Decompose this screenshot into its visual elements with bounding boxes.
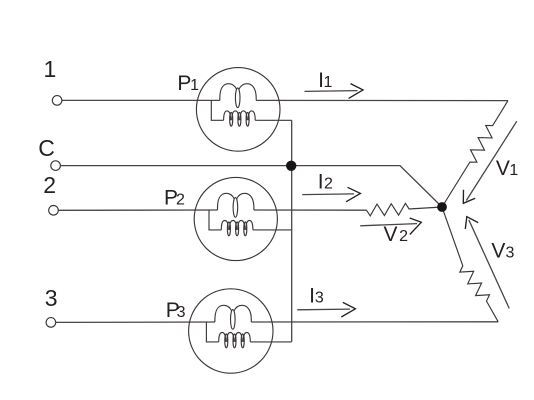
- wattmeter P1 circle: [196, 68, 280, 152]
- arrow I2 shaft: [302, 193, 354, 196]
- arrow V3 shaft: [469, 220, 509, 309]
- arrow V3 head: [465, 217, 478, 229]
- svg-text:V: V: [496, 157, 510, 180]
- svg-text:3: 3: [315, 289, 324, 306]
- wire phase 3 right: [251, 321, 498, 323]
- wattmeter P3 circle: [189, 289, 273, 373]
- wire C line: [60, 166, 442, 207]
- svg-text:2: 2: [176, 191, 185, 208]
- arrow I2 head: [346, 187, 360, 202]
- arrow V1 head: [463, 190, 475, 204]
- wattmeter P2 coils: [209, 193, 254, 236]
- terminal 2: [49, 206, 59, 216]
- svg-text:V: V: [491, 240, 505, 263]
- svg-text:3: 3: [177, 304, 186, 321]
- svg-text:3: 3: [506, 245, 515, 262]
- wire phase 1 right: [256, 99, 508, 101]
- arrow V1 shaft: [466, 121, 517, 200]
- svg-text:1: 1: [324, 74, 333, 91]
- wire phase 2 right: [254, 209, 367, 211]
- load branch V1 wire + resistor: [442, 101, 508, 207]
- common voltage bus: [291, 120, 293, 342]
- wattmeter P1 coils: [211, 84, 256, 127]
- wattmeter P3 coils: [206, 305, 251, 348]
- svg-text:I: I: [318, 170, 324, 193]
- svg-text:V: V: [384, 223, 398, 246]
- svg-text:1: 1: [509, 162, 518, 179]
- junction dot on C line: [286, 161, 296, 171]
- svg-text:1: 1: [190, 77, 199, 94]
- arrow V2 head: [410, 218, 422, 235]
- wire phase 2 left: [58, 209, 217, 211]
- svg-text:C: C: [38, 135, 55, 161]
- arrow I1 head: [349, 84, 363, 99]
- terminal 1: [52, 96, 62, 106]
- svg-text:3: 3: [45, 285, 58, 311]
- P1 voltage coil tap to bus: [256, 119, 291, 121]
- wire phase 3 left: [56, 321, 215, 323]
- star point node: [437, 202, 447, 212]
- load branch V2 resistor: [367, 203, 443, 216]
- arrow I3 shaft: [297, 308, 350, 311]
- wire phase 1 left: [62, 99, 220, 101]
- arrow I1 shaft: [305, 90, 358, 93]
- svg-text:2: 2: [324, 175, 333, 192]
- load branch V3 wire + resistor: [442, 207, 498, 322]
- svg-text:2: 2: [43, 172, 56, 198]
- P2 voltage coil tap to bus: [254, 229, 292, 231]
- P3 voltage coil tap to bus: [252, 341, 292, 343]
- svg-text:2: 2: [399, 228, 408, 245]
- arrow V2 shaft: [360, 224, 417, 226]
- arrow I3 head: [341, 302, 355, 317]
- terminal 3: [46, 318, 56, 328]
- svg-text:1: 1: [44, 56, 57, 82]
- terminal C: [51, 161, 61, 171]
- wattmeter P2 circle: [194, 177, 277, 260]
